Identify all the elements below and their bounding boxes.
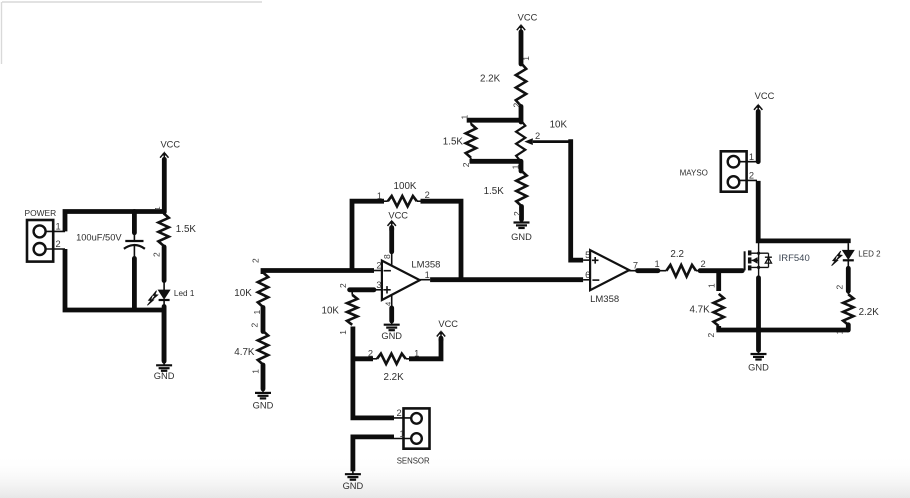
svg-text:VCC: VCC [160, 140, 180, 150]
op-amp U2 label [590, 294, 619, 305]
svg-text:2: 2 [706, 333, 716, 338]
svg-text:2: 2 [535, 131, 540, 141]
transistor Q1 channel bars [748, 250, 752, 270]
wire divider node to op-amp input [251, 258, 375, 274]
svg-text:VCC: VCC [518, 13, 538, 23]
capacitor C1 value label [76, 233, 122, 243]
resistor R8 1.5K (parallel) [443, 120, 476, 161]
svg-text:1: 1 [655, 259, 660, 269]
svg-text:VCC: VCC [438, 319, 458, 329]
svg-text:1: 1 [338, 330, 348, 335]
resistor R13 2.2K [843, 291, 879, 325]
svg-text:1: 1 [400, 429, 405, 439]
wire R1 to Led1 [162, 247, 167, 290]
ground GND (sensor) [343, 471, 364, 491]
wire feedback left vertical [352, 201, 384, 270]
svg-text:4: 4 [383, 302, 392, 306]
transistor Q1 IRF540 gate line [744, 251, 746, 270]
op-amp U2 pin 5 lead [583, 250, 590, 260]
svg-text:2: 2 [376, 260, 381, 270]
svg-text:10K: 10K [234, 288, 252, 299]
svg-text:GND: GND [154, 371, 175, 381]
op-amp U1 pin 3 lead [374, 280, 382, 290]
svg-text:100uF/50V: 100uF/50V [76, 233, 122, 243]
svg-text:1.5K: 1.5K [484, 186, 505, 197]
ground GND (divider) [253, 390, 274, 411]
op-amp U2 pin 6 lead [583, 270, 590, 280]
op-amp U2 pin 7 output [629, 260, 658, 270]
LED Led1 label [174, 289, 195, 298]
svg-text:2: 2 [249, 323, 259, 328]
svg-text:2: 2 [512, 211, 522, 216]
resistor R2 10K [234, 272, 268, 307]
wire R5 to sensor branch [338, 327, 394, 418]
resistor R7 2.2K [480, 56, 531, 108]
svg-text:2: 2 [251, 258, 261, 263]
potentiometer R9 wiper [524, 131, 570, 145]
svg-text:IRF540: IRF540 [779, 253, 810, 264]
svg-text:1: 1 [377, 191, 382, 201]
svg-text:1: 1 [749, 152, 754, 162]
wire pot bottom [461, 161, 521, 167]
wire op-amp1 output rail [420, 277, 583, 282]
wire R10 to GND [512, 207, 522, 220]
J2 pin 1 lead [394, 429, 411, 439]
svg-text:1: 1 [521, 56, 531, 61]
VCC rail (top) [517, 13, 538, 65]
op-amp U2 LM358 triangle [590, 250, 629, 290]
LED LED2 label [858, 249, 881, 258]
op-amp U1 LM358 triangle [382, 261, 420, 300]
resistor R11 labels [655, 249, 706, 269]
J1 pin 2 lead [46, 239, 65, 249]
svg-text:2: 2 [701, 259, 706, 269]
capacitor C1 plates [124, 241, 145, 249]
connector J3 MAYSO body [721, 151, 747, 191]
svg-text:2: 2 [56, 239, 61, 249]
ground GND (right) [748, 351, 769, 373]
svg-text:8: 8 [382, 254, 392, 259]
resistor R12 4.7K [690, 294, 724, 338]
op-amp U1 pin 2 lead [374, 260, 382, 270]
wire J1 pin1 to VCC top bus [65, 212, 165, 232]
wire R2 to R3 [249, 308, 263, 332]
svg-text:SENSOR: SENSOR [397, 457, 430, 466]
svg-text:2: 2 [834, 285, 844, 290]
svg-text:2.2K: 2.2K [480, 74, 501, 85]
transistor Q1 body arrow [752, 253, 759, 267]
svg-text:MAYSO: MAYSO [680, 168, 708, 177]
transistor Q1 source lead [751, 266, 768, 278]
wire pot top [460, 115, 522, 121]
svg-text:3: 3 [376, 280, 381, 290]
svg-text:POWER: POWER [25, 208, 57, 218]
svg-text:2: 2 [151, 252, 161, 257]
VCC above op-amp U1 [388, 210, 409, 230]
resistor R6 2.2K [373, 349, 419, 384]
svg-text:2: 2 [397, 408, 402, 418]
wire bottom rail (right) [716, 328, 848, 333]
svg-text:1.5K: 1.5K [443, 137, 464, 148]
resistor R4 100K labels [377, 181, 430, 201]
svg-text:GND: GND [748, 363, 769, 373]
svg-text:2: 2 [368, 349, 373, 359]
VCC arrow (R6) [437, 319, 458, 340]
wire R7 to pot node [519, 107, 524, 123]
svg-text:1: 1 [252, 310, 262, 315]
wire junction to R12 [706, 271, 718, 291]
wire branch to R6 2.2K [353, 349, 373, 359]
VCC rail (left) [160, 140, 180, 213]
ground GND (left) [154, 362, 175, 381]
resistor R10 1.5K [484, 171, 527, 206]
svg-text:2: 2 [461, 162, 471, 167]
wire op-amp pin3 stub [338, 283, 374, 290]
resistor R11 2.2 [658, 265, 701, 277]
capacitor C1 100uF/50V top lead [132, 212, 137, 241]
LED Led1 [147, 290, 169, 305]
ground GND (pot) [511, 219, 532, 242]
wire J3 pin2 to drain rail [758, 181, 848, 251]
connector J3 MAYSO label [680, 168, 708, 177]
svg-text:GND: GND [343, 481, 364, 491]
svg-text:GND: GND [381, 331, 402, 341]
LED LED2 [832, 250, 854, 265]
svg-text:2.2K: 2.2K [859, 307, 880, 318]
transistor Q1 drain lead [751, 243, 768, 255]
connector J2 SENSOR label [397, 457, 430, 466]
wire feedback right vertical to output [421, 201, 462, 280]
wire R6 to VCC [409, 339, 441, 359]
wire R13 to bottom rail [834, 325, 848, 335]
svg-text:10K: 10K [550, 120, 568, 131]
svg-text:1: 1 [425, 270, 430, 280]
svg-text:LED 2: LED 2 [858, 249, 881, 258]
op-amp U1 pin 8 lead [382, 228, 392, 266]
transistor Q1 body diode [765, 257, 772, 263]
capacitor C1 bottom lead [133, 245, 135, 308]
svg-text:1.5K: 1.5K [176, 224, 197, 235]
svg-text:1: 1 [250, 369, 260, 374]
svg-text:4.7K: 4.7K [234, 347, 255, 358]
svg-text:GND: GND [511, 232, 532, 242]
connector J1 POWER label [25, 208, 57, 218]
svg-text:1: 1 [460, 115, 470, 120]
connector J1 POWER body [27, 220, 53, 262]
connector J2 SENSOR body [404, 408, 430, 448]
VCC rail (right) [754, 91, 775, 162]
resistor R1 1.5K [151, 206, 169, 257]
svg-text:1: 1 [153, 206, 162, 210]
svg-text:2: 2 [425, 190, 430, 200]
svg-text:LM358: LM358 [590, 294, 619, 305]
op-amp U1 label [411, 260, 440, 271]
wire R11 to gate [700, 268, 742, 273]
potentiometer R9 body [516, 120, 525, 161]
svg-text:GND: GND [253, 400, 274, 410]
frame edge lines [2, 2, 263, 64]
svg-text:10K: 10K [322, 306, 340, 317]
wire wiper to op-amp2 +input [550, 120, 584, 261]
wire R3 to GND [250, 365, 263, 389]
resistor R3 4.7K [234, 331, 268, 365]
svg-text:2.2K: 2.2K [384, 372, 405, 383]
resistor R5 10K [322, 290, 358, 325]
op-amp U1 pin 1 output lead [425, 270, 430, 280]
wire LED2 to R13 [834, 260, 848, 291]
J2 pin 2 lead [394, 408, 411, 418]
resistor R4 100K [384, 196, 421, 206]
svg-text:VCC: VCC [388, 210, 408, 220]
svg-text:Led 1: Led 1 [174, 289, 195, 298]
wire Q1 source to GND [756, 278, 761, 350]
svg-text:2: 2 [338, 283, 348, 288]
ground GND (op-amp U1) [381, 322, 402, 342]
svg-text:VCC: VCC [755, 91, 775, 101]
wire R12 to bottom rail [716, 326, 721, 330]
wire Led1 to GND [163, 300, 165, 362]
svg-text:7: 7 [633, 260, 638, 270]
wire J2 pin1 to GND [353, 437, 394, 471]
op-amp U1 pin 4 lead [383, 295, 392, 321]
svg-text:1: 1 [56, 222, 61, 232]
svg-text:1: 1 [511, 164, 521, 169]
transistor Q1 label [779, 253, 810, 264]
svg-text:2: 2 [749, 171, 754, 181]
resistor R1 1.5K value label [176, 224, 197, 235]
svg-text:2.2: 2.2 [670, 249, 684, 260]
wire J1 pin2 to bottom bus and GND [65, 249, 164, 361]
wire R9 to R10 [511, 161, 522, 171]
J3 pin 1 lead [739, 152, 758, 162]
J1 pin 1 lead [46, 222, 65, 232]
J3 pin 2 lead [739, 171, 757, 181]
svg-text:4.7K: 4.7K [690, 304, 711, 315]
transistor Q1 internal box right [768, 253, 770, 267]
svg-text:100K: 100K [394, 181, 417, 192]
svg-text:1: 1 [706, 283, 716, 288]
